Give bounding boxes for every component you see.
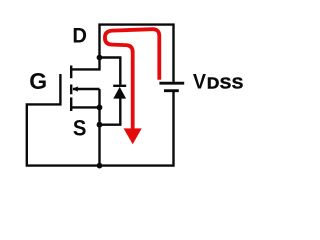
arrowhead of body connection	[72, 86, 78, 91]
svg-text:D: D	[72, 24, 87, 48]
svg-text:DSS: DSS	[207, 75, 244, 92]
red current flow path	[105, 29, 159, 129]
wire: diode anode wire to source vertical	[100, 97, 121, 124]
svg-text:V: V	[193, 70, 206, 94]
node: drain junction dot	[97, 55, 103, 61]
transistor Q1 bottom channel bar	[70, 97, 72, 111]
node: source junction dot	[97, 105, 103, 111]
wire: diode cathode wire from drain node	[100, 58, 121, 85]
battery V1 short negative plate	[164, 89, 179, 92]
red current flow arrowhead	[124, 128, 142, 144]
diode D1 cathode bar	[113, 85, 126, 87]
wire: source lead S	[71, 106, 99, 108]
diode D1 triangle	[113, 87, 126, 99]
transistor Q1 top channel bar	[70, 66, 72, 79]
wire: gate bar, gate lead, left rail, bottom rail, battery bottom lead	[27, 74, 174, 166]
wire: source vertical	[98, 89, 100, 166]
battery V1 long positive plate	[159, 82, 184, 85]
transistor Q1 middle channel bar	[70, 85, 72, 95]
svg-text:G: G	[29, 68, 47, 94]
node: diode anode junction dot	[97, 122, 103, 128]
wire: body connection with arrow into channel	[73, 88, 100, 90]
svg-text:S: S	[73, 117, 87, 141]
wire: drain lead, top wire and battery top lead	[71, 25, 173, 82]
node: bottom rail junction dot	[97, 163, 103, 169]
